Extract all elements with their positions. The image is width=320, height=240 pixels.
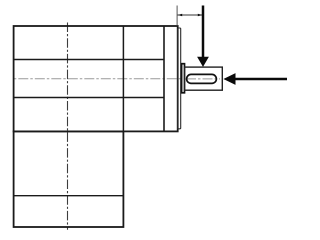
shaft [185,67,223,90]
keyway centerline segment [186,78,220,80]
shaft collar [182,64,185,93]
internal horizontal line lower [14,195,124,197]
vertical centerline [67,23,69,230]
gearbox lower body [14,131,124,227]
radial force arrow line [202,6,205,58]
keyway [187,74,217,83]
internal vertical line [163,26,165,131]
extension line [176,6,178,26]
radial force arrowhead [197,57,209,67]
internal horizontal line [14,97,164,99]
internal vertical line [122,26,124,131]
axial force arrow line [235,78,287,80]
gearbox upper body [14,26,178,131]
dimension line [178,14,203,16]
axial force arrowhead [223,73,235,85]
internal horizontal line [14,59,164,61]
dimension arrow right [198,14,203,17]
horizontal centerline [14,78,221,80]
flange plate [178,28,181,129]
dimension arrow left [178,14,183,17]
